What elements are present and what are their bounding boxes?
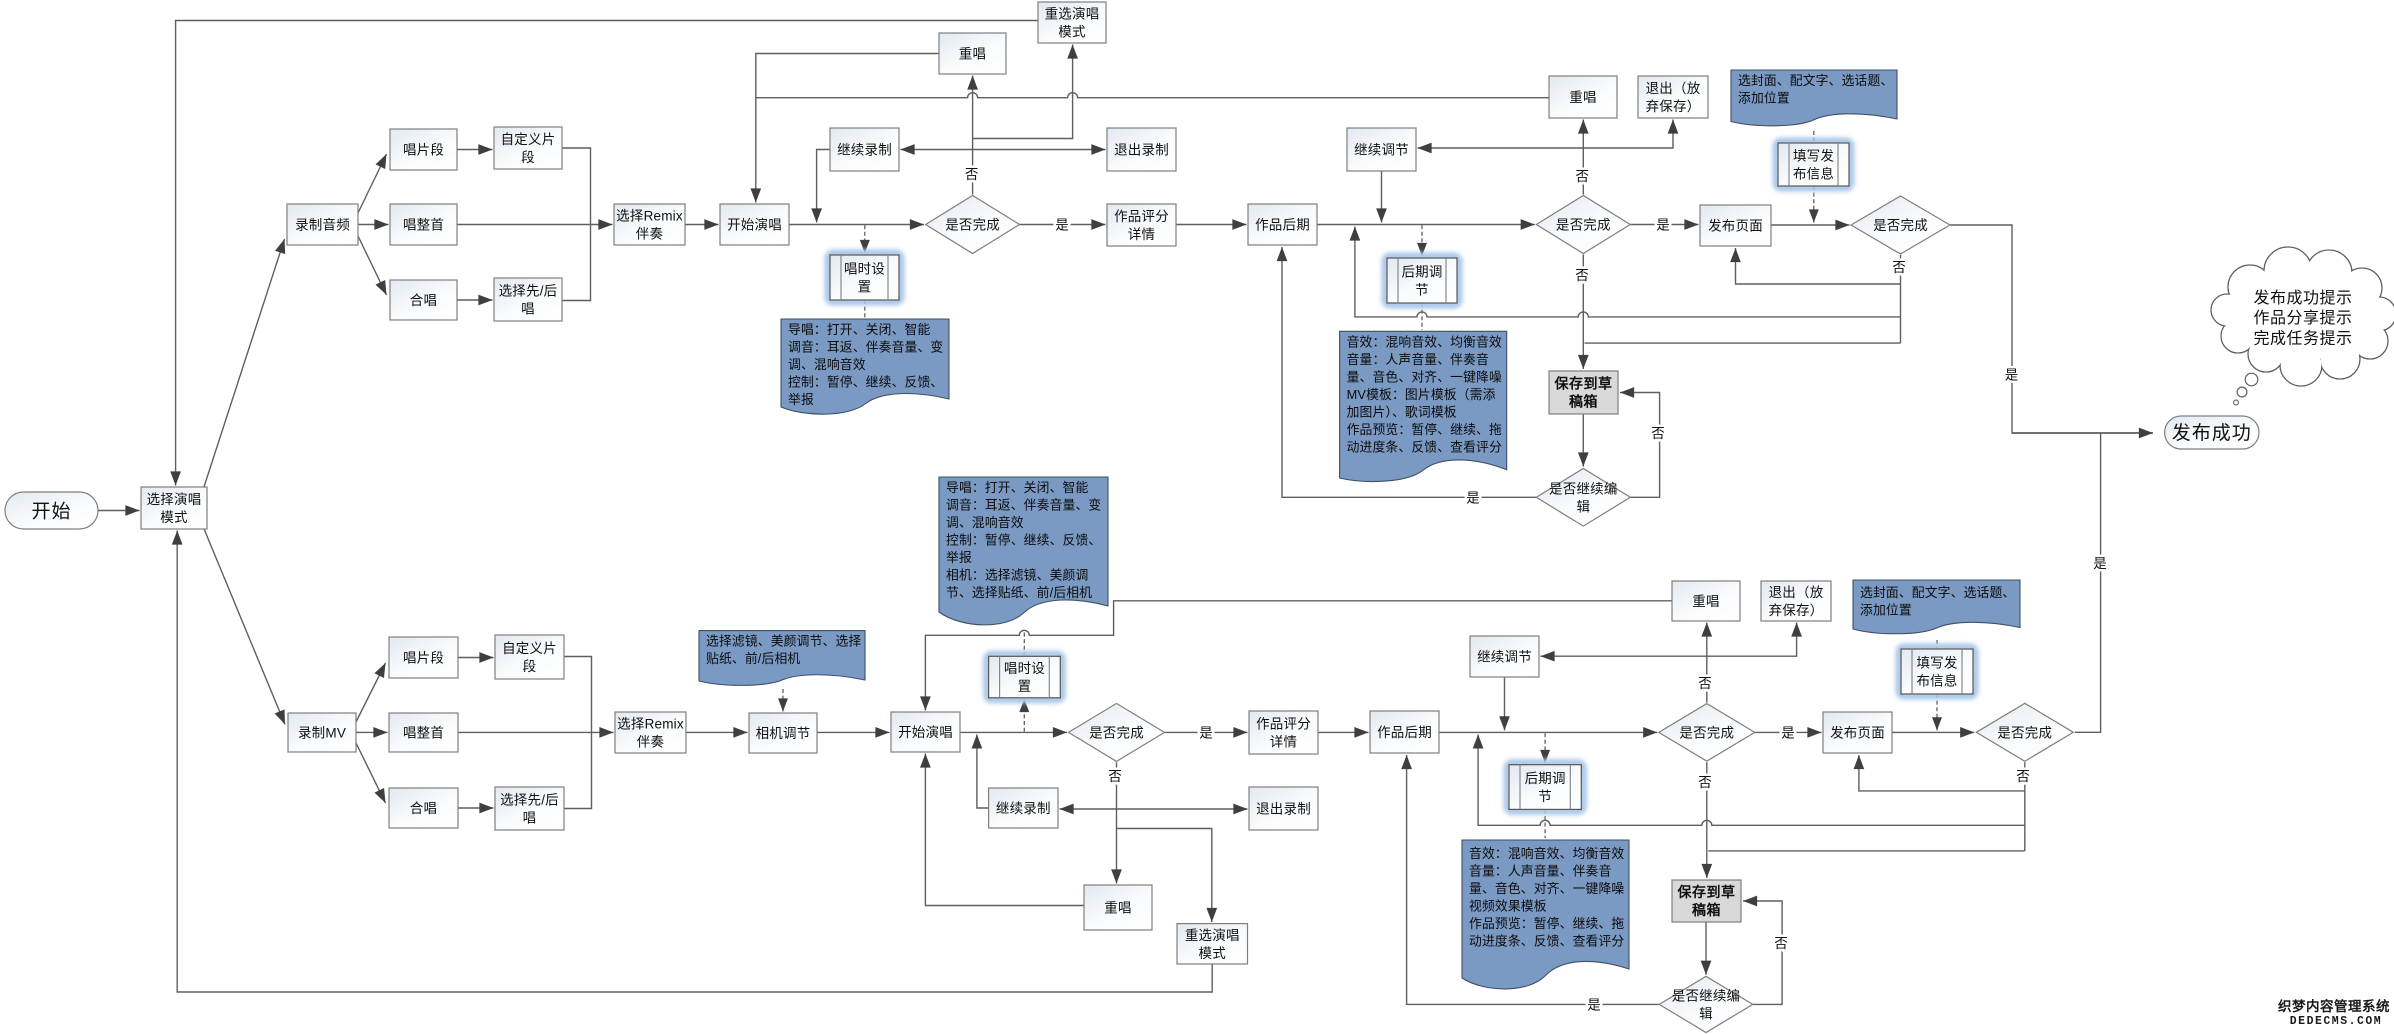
svg-text:开始演唱: 开始演唱 — [727, 218, 782, 233]
decision diamond: 是否完成 M2 — [1659, 704, 1755, 762]
wire: 选择演唱模式 to 录制音频 (diagonal) — [202, 239, 285, 493]
wire: dashed to 唱时设置 — [864, 225, 866, 253]
svg-text:是: 是 — [2093, 556, 2107, 571]
svg-text:唱片段: 唱片段 — [403, 651, 444, 666]
wire: 作品评分详情 to 作品后期 — [1176, 224, 1247, 226]
process box: 继续调节 (audio) — [1347, 128, 1416, 171]
svg-text:伴奏: 伴奏 — [637, 735, 665, 750]
process box: 作品评分详情 MV — [1249, 711, 1318, 754]
process box: 重选演唱模式 (audio) — [1038, 2, 1106, 43]
svg-text:作品后期: 作品后期 — [1255, 218, 1310, 233]
svg-text:添加位置: 添加位置 — [1860, 603, 1912, 618]
wire: 开始演唱 to 是否完成1 — [789, 224, 924, 226]
svg-text:作品预览：暂停、继续、拖: 作品预览：暂停、继续、拖 — [1469, 916, 1624, 931]
process box: 重唱 (MV retry) — [1084, 885, 1152, 930]
svg-text:段: 段 — [523, 659, 537, 674]
wire: 录制音频 to 合唱 (diagonal) — [358, 236, 387, 295]
document callout: 相机调节说明 (MV) — [699, 631, 865, 686]
svg-text:动进度条、反馈、查看评分: 动进度条、反馈、查看评分 — [1347, 439, 1502, 454]
svg-text:辑: 辑 — [1699, 1006, 1713, 1021]
wire: 保存到草稿箱MV to 是否继续编辑MV — [1705, 922, 1707, 975]
svg-text:发布成功: 发布成功 — [2172, 422, 2252, 444]
svg-text:否: 否 — [1774, 936, 1788, 951]
svg-text:是: 是 — [1199, 725, 1213, 740]
wire: 继续录制/退出录制 line — [901, 149, 1106, 151]
decision diamond: 是否完成 M3 — [1976, 703, 2073, 761]
document callout: 后期调节说明 (audio) — [1340, 331, 1507, 481]
process box: 相机调节 MV — [749, 713, 817, 753]
svg-text:否: 否 — [1892, 260, 1906, 275]
wire: 合唱 to 选择先/后唱 — [458, 807, 494, 809]
wire: 作品后期 to 是否完成M2 — [1439, 731, 1657, 733]
wire: 重唱 return to 开始演唱MV — [925, 754, 1084, 906]
process box: 重唱 (audio post) — [1549, 76, 1617, 118]
wire: 录制MV to 合唱 (diagonal) — [356, 743, 386, 803]
wire: 是否完成2 yes to 发布页面 — [1630, 224, 1698, 226]
svg-text:是: 是 — [1466, 491, 1480, 506]
wire: branch to 继续调节MV — [1541, 655, 1707, 657]
svg-text:置: 置 — [858, 280, 872, 295]
wire: 作品评分详情 to 作品后期 — [1318, 731, 1369, 733]
svg-text:调音：耳返、伴奏音量、变: 调音：耳返、伴奏音量、变 — [946, 498, 1101, 513]
process box: 自定义片段 MV — [495, 635, 564, 679]
wire: dashed 唱时设置MV to callout — [1023, 630, 1025, 656]
svg-text:布信息: 布信息 — [1793, 166, 1834, 182]
svg-text:选封面、配文字、选话题、: 选封面、配文字、选话题、 — [1738, 73, 1893, 88]
process box: 发布页面 — [1700, 205, 1771, 246]
process box: 重唱 (MV post) — [1672, 581, 1740, 621]
process box: 退出录制 MV — [1249, 787, 1318, 830]
svg-text:继续录制: 继续录制 — [837, 143, 892, 158]
svg-text:相机：选择滤镜、美颜调: 相机：选择滤镜、美颜调 — [946, 568, 1088, 583]
process box: 选择先/后唱 MV — [495, 787, 564, 830]
svg-text:是: 是 — [1656, 218, 1670, 233]
wire: 重唱 return to 开始演唱 — [756, 54, 939, 203]
wire: 是否完成M1 yes to 作品评分详情 — [1165, 731, 1248, 733]
svg-text:调、混响音效: 调、混响音效 — [946, 515, 1024, 530]
decision diamond: 是否完成 1 — [926, 196, 1020, 254]
svg-text:继续调节: 继续调节 — [1477, 650, 1532, 665]
decision diamond: 是否继续编辑 MV — [1659, 976, 1753, 1032]
wire: 是否完成3 no trunk — [1900, 255, 1902, 343]
process box: 唱整首 — [390, 204, 457, 245]
wire: dashed 后期调节MV to callout — [1544, 809, 1546, 838]
svg-text:相机调节: 相机调节 — [756, 726, 811, 741]
svg-text:退出（放: 退出（放 — [1646, 81, 1701, 96]
process box: 退出（放弃保存） (audio) — [1638, 76, 1708, 118]
wire: 重唱2 long return — [756, 93, 1549, 98]
process box: 作品评分详情 — [1107, 204, 1176, 246]
svg-text:量、音色、对齐、一键降噪: 量、音色、对齐、一键降噪 — [1469, 881, 1624, 896]
wire: 是否继续编辑 no loop to 保存到草稿箱 — [1620, 393, 1660, 498]
svg-text:选封面、配文字、选话题、: 选封面、配文字、选话题、 — [1860, 585, 2015, 600]
svg-text:是否继续编: 是否继续编 — [1672, 988, 1741, 1003]
wire: 是否完成M1 no down to 重唱 — [1116, 762, 1118, 883]
svg-text:节: 节 — [1415, 283, 1429, 298]
wire: 是否完成2 no up to 重唱2 — [1582, 120, 1584, 195]
thought bubbles — [2234, 373, 2258, 405]
document callout: 后期调节说明 (MV) — [1462, 840, 1629, 989]
svg-text:模式: 模式 — [1199, 946, 1227, 961]
svg-text:织梦内容管理系统: 织梦内容管理系统 — [2278, 998, 2390, 1014]
process box: 唱整首 MV — [389, 713, 458, 752]
svg-text:作品评分: 作品评分 — [1256, 717, 1311, 732]
wire: 发布页面 to 是否完成M3 — [1892, 731, 1974, 733]
svg-text:作品预览：暂停、继续、拖: 作品预览：暂停、继续、拖 — [1347, 422, 1502, 437]
svg-text:选择Remix: 选择Remix — [616, 209, 683, 224]
svg-text:举报: 举报 — [788, 392, 814, 407]
svg-text:DEDECMS.COM: DEDECMS.COM — [2290, 1015, 2382, 1028]
svg-text:辑: 辑 — [1576, 499, 1590, 514]
process box: 开始演唱 — [720, 204, 789, 245]
svg-text:作品分享提示: 作品分享提示 — [2253, 309, 2352, 327]
svg-text:唱: 唱 — [523, 811, 537, 826]
svg-text:是: 是 — [1055, 218, 1069, 233]
svg-text:动进度条、反馈、查看评分: 动进度条、反馈、查看评分 — [1469, 934, 1624, 949]
wire: dashed 后期调节 to callout — [1421, 303, 1423, 330]
process box: 发布页面 MV — [1823, 712, 1892, 753]
process box: 退出（放弃保存） MV — [1761, 581, 1831, 621]
svg-text:自定义片: 自定义片 — [502, 641, 557, 656]
wire: 录制音频 to 唱整首 — [358, 224, 389, 226]
wire: 唱片段 to 自定义片段 — [457, 149, 493, 151]
decision diamond: 是否完成 3 — [1851, 196, 1950, 254]
svg-text:是: 是 — [2005, 368, 2019, 383]
wire: dashed to 后期调节MV — [1544, 733, 1546, 763]
svg-text:唱片段: 唱片段 — [403, 143, 444, 158]
svg-text:是否继续编: 是否继续编 — [1549, 481, 1618, 496]
predefined-process box (highlighted): 后期调节 MV — [1507, 763, 1583, 812]
wire: 是否完成1 yes to 作品评分详情 — [1020, 224, 1106, 226]
svg-text:否: 否 — [1576, 169, 1590, 184]
svg-text:音量：人声音量、伴奏音: 音量：人声音量、伴奏音 — [1469, 864, 1611, 879]
svg-text:举报: 举报 — [946, 550, 972, 565]
wire: dashed calloutG to 填写发布信息MV — [1936, 640, 1938, 648]
process box: 选择Remix伴奏 — [614, 204, 685, 245]
svg-text:重唱: 重唱 — [1569, 90, 1596, 105]
process box: 合唱 — [390, 280, 457, 320]
svg-text:选择演唱: 选择演唱 — [147, 492, 202, 507]
svg-text:完成任务提示: 完成任务提示 — [2253, 330, 2352, 348]
wire: no branch to 发布页面 — [1736, 248, 1901, 284]
svg-text:退出（放: 退出（放 — [1769, 585, 1824, 600]
wire: branch to 退出放弃保存MV — [1707, 623, 1797, 657]
wire: 开始 to 选择演唱模式 — [98, 510, 140, 512]
svg-text:录制MV: 录制MV — [298, 726, 346, 741]
wire: 是否完成M2 no down to 保存到草稿箱MV — [1706, 762, 1708, 878]
process box: 选择先/后唱 — [494, 278, 562, 321]
svg-text:伴奏: 伴奏 — [636, 227, 664, 242]
wire: merge into 保存到草稿箱MV trunk — [1708, 850, 2025, 852]
wire: 唱片段 to 自定义片段 — [458, 657, 494, 659]
wire: 录制MV to 唱片段 (diagonal) — [356, 663, 386, 722]
svg-text:唱时设: 唱时设 — [1004, 661, 1045, 676]
svg-text:自定义片: 自定义片 — [501, 132, 556, 147]
decision diamond: 是否完成 2 — [1536, 196, 1630, 254]
wire: branch to 重选演唱模式 — [973, 45, 1073, 139]
decision diamond: 是否继续编辑 (audio) — [1536, 469, 1630, 527]
wire: 选择Remix伴奏 to 开始演唱 — [685, 224, 719, 226]
svg-text:添加位置: 添加位置 — [1738, 91, 1790, 106]
wire: dashed 唱时设置 to callout — [864, 300, 866, 318]
svg-text:保存到草: 保存到草 — [1554, 376, 1613, 392]
svg-text:导唱：打开、关闭、智能: 导唱：打开、关闭、智能 — [788, 322, 930, 337]
wire: junction 自定义片段/选择先后唱 merge rail — [562, 148, 591, 301]
process box: 自定义片段 — [494, 127, 562, 169]
svg-text:稿箱: 稿箱 — [1569, 394, 1598, 410]
process box: 退出录制 (audio) — [1107, 128, 1176, 171]
wire: dashed callout to 相机调节 — [782, 689, 784, 712]
svg-text:继续调节: 继续调节 — [1354, 143, 1409, 158]
wire: 是否继续编辑 yes to 作品后期 — [1282, 247, 1536, 497]
wire: return to flow line before 是否完成2 — [1355, 227, 1901, 317]
svg-text:否: 否 — [1651, 426, 1665, 441]
svg-text:视频效果模板: 视频效果模板 — [1469, 899, 1547, 914]
wire: 重选演唱模式 return to 选择演唱模式 — [177, 531, 1212, 993]
predefined-process box (highlighted): 唱时设置 (audio) — [828, 253, 901, 302]
svg-text:是否完成: 是否完成 — [945, 218, 1000, 233]
svg-text:继续录制: 继续录制 — [996, 801, 1051, 816]
process box: 保存到草稿箱 MV — [1672, 880, 1741, 922]
svg-text:弃保存）: 弃保存） — [1769, 603, 1824, 618]
wire: dashed 填写发布信息 to flow line — [1813, 186, 1815, 223]
svg-text:详情: 详情 — [1270, 735, 1297, 750]
wire: 继续调节MV to flow line — [1504, 677, 1506, 730]
svg-text:选择Remix: 选择Remix — [617, 717, 684, 732]
wire: 开始演唱 to 是否完成M1 — [960, 731, 1067, 733]
predefined-process box (highlighted): 后期调节 (audio) — [1385, 256, 1459, 305]
wire: branch to 退出放弃保存 — [1583, 120, 1673, 149]
wire: 作品后期 to 是否完成2 — [1317, 224, 1535, 226]
svg-text:是: 是 — [1587, 998, 1601, 1013]
wire: 是否完成2 no down to 保存到草稿箱 — [1582, 255, 1584, 370]
svg-text:节、选择贴纸、前/后相机: 节、选择贴纸、前/后相机 — [946, 585, 1092, 600]
svg-text:导唱：打开、关闭、智能: 导唱：打开、关闭、智能 — [946, 480, 1088, 495]
process box: 继续录制 (audio) — [830, 128, 899, 171]
process box: 开始演唱 MV — [891, 712, 960, 752]
process box: 唱片段 — [390, 129, 457, 170]
svg-text:MV模板：图片模板（需添: MV模板：图片模板（需添 — [1347, 387, 1496, 402]
svg-text:退出录制: 退出录制 — [1114, 143, 1169, 158]
svg-text:音效：混响音效、均衡音效: 音效：混响音效、均衡音效 — [1469, 846, 1624, 861]
svg-text:是否完成: 是否完成 — [1556, 218, 1611, 233]
svg-text:模式: 模式 — [1058, 25, 1086, 40]
wire: 继续录制 to flow line — [817, 150, 830, 223]
svg-text:是否完成: 是否完成 — [1873, 218, 1928, 233]
wire: 继续录制/退出录制 line MV — [1060, 808, 1248, 810]
wire: no branch to 发布页面MV — [1859, 755, 2025, 791]
svg-text:否: 否 — [1575, 268, 1589, 283]
svg-text:录制音频: 录制音频 — [295, 217, 350, 233]
watermark 织梦内容管理系统 DEDECMS.COM — [2278, 998, 2390, 1028]
svg-text:唱: 唱 — [521, 302, 535, 317]
wire: dashed to 唱时设置MV — [1023, 699, 1025, 732]
wire: branch to 重选演唱模式 — [1117, 829, 1212, 923]
wire: 是否继续编辑MV no loop — [1743, 901, 1782, 1004]
wire: dashed callout to 填写发布信息 — [1813, 131, 1815, 142]
process box: 重选演唱模式 (MV) — [1177, 924, 1248, 964]
svg-text:重选演唱: 重选演唱 — [1045, 7, 1100, 22]
wire: 选择演唱模式 to 录制MV (diagonal) — [202, 524, 285, 725]
svg-text:量、音色、对齐、一键降噪: 量、音色、对齐、一键降噪 — [1347, 369, 1502, 384]
wire: 保存到草稿箱 to 是否继续编辑 — [1582, 414, 1584, 467]
svg-text:开始演唱: 开始演唱 — [898, 725, 953, 740]
wire: 发布页面 to 是否完成3 — [1771, 224, 1850, 226]
wire: 是否完成M2 yes to 发布页面 — [1755, 731, 1822, 733]
svg-text:发布页面: 发布页面 — [1708, 219, 1763, 234]
wire: 是否完成3 yes to 发布成功 — [1950, 225, 2153, 732]
svg-text:节: 节 — [1538, 789, 1552, 804]
svg-text:唱整首: 唱整首 — [403, 726, 444, 741]
wire: dashed 填写发布信息MV to flow line — [1936, 694, 1938, 730]
document callout: 发布信息说明 (MV) — [1853, 580, 2020, 634]
svg-text:音效：混响音效、均衡音效: 音效：混响音效、均衡音效 — [1347, 334, 1502, 349]
process box: 录制MV — [288, 713, 356, 752]
wire: 录制音频 to 唱片段 (diagonal) — [358, 154, 387, 213]
svg-text:是否完成: 是否完成 — [1997, 725, 2052, 740]
svg-text:唱整首: 唱整首 — [403, 218, 444, 233]
predefined-process box (highlighted): 唱时设置 MV — [987, 654, 1063, 700]
process box: 录制音频 — [287, 204, 358, 245]
wire: 重唱2 long return MV — [925, 601, 1672, 711]
svg-text:选择滤镜、美颜调节、选择: 选择滤镜、美颜调节、选择 — [706, 634, 861, 649]
svg-text:选择先/后: 选择先/后 — [500, 793, 559, 808]
svg-text:发布成功提示: 发布成功提示 — [2253, 289, 2352, 307]
svg-text:唱时设: 唱时设 — [844, 262, 885, 277]
wire: 合唱 to 选择先/后唱 — [457, 299, 493, 301]
wire: branch to 继续调节 — [1418, 147, 1584, 149]
svg-text:是否完成: 是否完成 — [1089, 725, 1144, 740]
svg-text:布信息: 布信息 — [1916, 673, 1957, 689]
svg-text:否: 否 — [1108, 769, 1122, 784]
document callout: 导唱设置说明 (audio) — [781, 319, 949, 414]
svg-text:音量：人声音量、伴奏音: 音量：人声音量、伴奏音 — [1347, 352, 1489, 367]
predefined-process box (highlighted): 填写发布信息 (audio) — [1776, 141, 1851, 188]
svg-text:否: 否 — [1698, 676, 1712, 691]
process box: 选择演唱模式 — [141, 487, 207, 529]
svg-text:重唱: 重唱 — [1692, 594, 1719, 609]
thought cloud: 发布成功提示/作品分享提示/完成任务提示 — [2211, 247, 2394, 386]
svg-text:置: 置 — [1018, 679, 1032, 694]
wire: 唱整首 to 选择Remix伴奏 — [457, 224, 613, 226]
process box: 选择Remix伴奏 MV — [615, 712, 686, 753]
svg-text:调、混响音效: 调、混响音效 — [788, 357, 866, 372]
svg-text:否: 否 — [965, 167, 979, 182]
wire: 选择Remix伴奏 to 相机调节 — [686, 731, 748, 733]
svg-text:是否完成: 是否完成 — [1679, 725, 1734, 740]
wire: 继续调节 to flow line — [1381, 171, 1383, 223]
process box: 保存到草稿箱 (audio) — [1549, 371, 1618, 414]
svg-text:模式: 模式 — [160, 510, 188, 525]
wire: 重选演唱模式 return to 选择演唱模式 — [176, 21, 1038, 486]
svg-text:段: 段 — [521, 150, 535, 165]
svg-text:是: 是 — [1781, 725, 1795, 740]
svg-text:合唱: 合唱 — [410, 293, 437, 308]
svg-text:否: 否 — [1698, 775, 1712, 790]
svg-text:控制：暂停、继续、反馈、: 控制：暂停、继续、反馈、 — [946, 533, 1101, 548]
wire: 唱整首 to 选择Remix伴奏 — [458, 731, 614, 733]
svg-text:后期调: 后期调 — [1401, 265, 1442, 280]
process box: 作品后期 — [1248, 204, 1317, 245]
svg-text:稿箱: 稿箱 — [1692, 902, 1721, 918]
process box: 继续录制 MV — [989, 788, 1058, 828]
wire: junction MV merge rail — [564, 657, 592, 809]
process box: 合唱 MV — [389, 788, 458, 828]
svg-text:否: 否 — [2016, 769, 2030, 784]
wire: dashed to 后期调节 — [1421, 225, 1423, 256]
svg-text:退出录制: 退出录制 — [1256, 802, 1311, 817]
document callout: 导唱设置说明 (MV) — [939, 477, 1108, 625]
svg-text:加图片）、歌词模板: 加图片）、歌词模板 — [1347, 404, 1457, 419]
process box: 作品后期 MV — [1370, 711, 1439, 753]
wire: return to flow line MV — [1478, 734, 2025, 825]
wire: 是否继续编辑MV yes to 作品后期MV — [1407, 755, 1660, 1004]
process box: 唱片段 MV — [389, 637, 458, 678]
svg-text:合唱: 合唱 — [410, 801, 437, 816]
wire: 是否完成M2 no up to 重唱2 — [1706, 623, 1708, 703]
svg-text:作品评分: 作品评分 — [1114, 209, 1169, 224]
svg-text:作品后期: 作品后期 — [1377, 725, 1432, 740]
svg-text:填写发: 填写发 — [1916, 656, 1957, 671]
wire: 继续录制MV to flow line — [977, 734, 989, 808]
svg-text:贴纸、前/后相机: 贴纸、前/后相机 — [706, 651, 800, 666]
svg-text:控制：暂停、继续、反馈、: 控制：暂停、继续、反馈、 — [788, 375, 943, 390]
svg-text:发布页面: 发布页面 — [1830, 726, 1885, 741]
wire: merge into 保存到草稿箱 trunk — [1585, 342, 1901, 344]
process box: 继续调节 MV — [1470, 636, 1539, 677]
svg-text:重唱: 重唱 — [959, 47, 986, 62]
terminator: 开始 start — [5, 492, 98, 529]
svg-text:开始: 开始 — [31, 500, 71, 522]
wire: 是否完成M3 no trunk — [2024, 762, 2026, 851]
process box: 重唱 (audio retry) — [939, 33, 1006, 74]
svg-text:弃保存）: 弃保存） — [1646, 99, 1701, 114]
svg-text:详情: 详情 — [1128, 227, 1155, 242]
wire: 录制MV to 唱整首 — [356, 731, 388, 733]
svg-text:重选演唱: 重选演唱 — [1185, 928, 1240, 943]
svg-text:保存到草: 保存到草 — [1677, 884, 1736, 900]
svg-text:选择先/后: 选择先/后 — [499, 284, 558, 299]
svg-text:后期调: 后期调 — [1525, 771, 1566, 786]
terminator: 发布成功 end — [2165, 416, 2259, 449]
predefined-process box (highlighted): 填写发布信息 MV — [1899, 647, 1975, 696]
svg-text:调音：耳返、伴奏音量、变: 调音：耳返、伴奏音量、变 — [788, 340, 943, 355]
document callout: 发布信息说明 (audio) — [1731, 70, 1897, 126]
wire: 相机调节 to 开始演唱 — [817, 731, 890, 733]
wire: 是否完成1 no up to 重唱 — [972, 76, 974, 195]
svg-text:填写发: 填写发 — [1793, 149, 1834, 164]
decision diamond: 是否完成 M1 — [1069, 703, 1165, 761]
svg-text:重唱: 重唱 — [1104, 901, 1131, 916]
wire: arrow into 发布成功 — [2012, 432, 2153, 434]
